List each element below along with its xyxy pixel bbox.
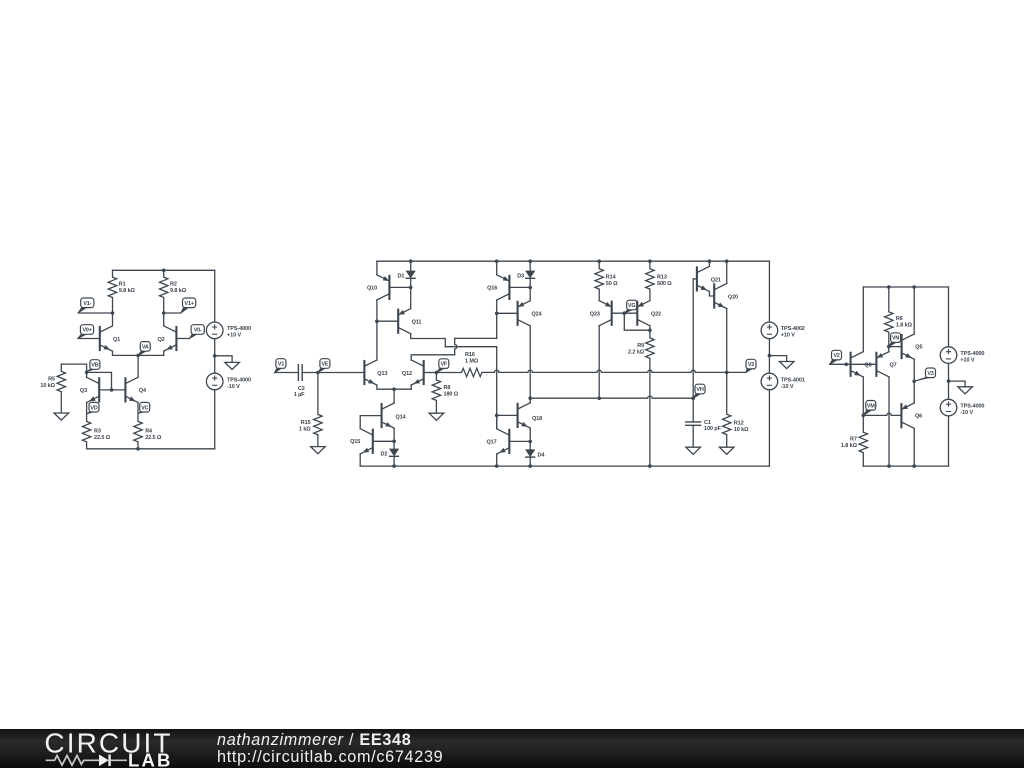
svg-text:R12: R12 [734,420,744,426]
svg-text:1 kΩ: 1 kΩ [299,426,311,432]
resistor R12 [723,414,731,434]
resistor R5 [57,371,65,391]
wire between right sources [948,363,950,399]
junction Q14 emitter / Q15 base / D2 [392,440,396,444]
wire TPS-4001 to bottom rail [768,390,770,466]
svg-text:D2: D2 [381,452,388,458]
junction top rail / R6 [887,285,891,289]
svg-text:V1+: V1+ [184,301,193,307]
junction node VG [623,311,627,315]
svg-text:VM: VM [867,403,875,409]
resistor R3 [82,421,90,441]
svg-text:2.2 kΩ: 2.2 kΩ [628,350,645,356]
wire rail to V+ source [214,270,216,322]
transistor Q6 [901,403,914,428]
junction node VE [316,371,320,375]
wire Q7 collector to bottom rail [888,377,890,466]
junction node VH [691,396,695,400]
wire Q23-Q22 base rail [612,312,638,314]
wire R14 to Q23 emitter [598,289,600,301]
svg-text:V0+: V0+ [82,328,91,334]
wire top rail middle block [377,260,770,262]
resistor R14 [595,269,603,289]
junction top rail / R2 [162,269,166,273]
resistor R1 [108,277,116,297]
svg-text:D4: D4 [538,452,546,458]
junction bottom rail / Q17 [495,464,499,468]
wire bottom rail left block [87,448,215,450]
svg-text:TPS-4000: TPS-4000 [227,378,251,384]
svg-text:+10 V: +10 V [227,333,241,339]
wire rail to right V+ source [948,287,950,347]
wire R15 to ground [317,435,319,447]
wire V- source to bottom rail [214,390,216,449]
wire Q10 base to D1 node [389,286,410,288]
junction bottom rail / D2 [392,464,396,468]
svg-text:V2: V2 [748,362,754,368]
junction VB node [85,371,89,375]
junction middle supply mid [768,354,772,358]
wire R2 bottom lead [163,298,165,314]
svg-text:TPS-4001: TPS-4001 [781,378,805,384]
wire emitter rail VA [113,354,164,356]
wire rail to Q16 emitter [496,261,498,275]
wire VE to R15 [317,373,319,415]
junction top rail / Q16 [495,259,499,263]
svg-text:9.8 kΩ: 9.8 kΩ [119,288,136,294]
transistor Q14 [382,403,395,428]
svg-text:1 MΩ: 1 MΩ [465,358,479,364]
wire Q11 collector to Q18 base node [445,346,496,348]
svg-text:TPS-4000: TPS-4000 [227,326,251,332]
flag V1 input [275,368,283,373]
wire Q12 collector path [411,355,455,360]
svg-text:Q3: Q3 [80,388,87,394]
svg-text:Q24: Q24 [532,312,543,318]
wire R13 top lead [649,261,651,269]
junction right supply mid [947,379,951,383]
wire Q22 collector lead [649,326,651,330]
junction node VM [862,414,866,418]
resistor R4 [134,421,142,441]
flag V1+ [181,307,189,313]
svg-text:Q1: Q1 [113,337,120,343]
transistor Q17 [497,429,510,454]
svg-text:Q12: Q12 [402,371,412,377]
junction Q18 base node [495,414,499,418]
junction R2 / Q2 collector [162,311,166,315]
wire to Q16 collector node [455,337,497,339]
wire Q24 base [497,312,518,314]
wire R14 top lead [598,261,600,269]
wire R9 to bottom rail [649,358,651,466]
wire Q12 collector riser (hop) [455,338,457,354]
resistor R6 [885,312,893,332]
wire Q18 collector [529,398,531,403]
transistor Q10 [377,275,390,300]
wire Q20 emitter / R12 lead [726,309,728,415]
wire Q3 collector-base tie [87,372,112,390]
wire Q21 base to VH node [692,279,694,398]
wire Q15 base to D2 node [373,440,394,442]
flag VG [624,309,633,313]
svg-text:R15: R15 [301,420,311,426]
svg-text:Q18: Q18 [532,416,542,422]
wire Q18 collector to VH node (hop) [530,396,693,398]
wire VH to C1 [692,398,694,422]
wire Q6 collector to bottom rail [913,428,915,466]
wire V1 to C2 [275,372,299,374]
junction VF wire / Q20 emitter [725,371,729,375]
wire R1 bottom lead [112,298,114,314]
wire Q14 base to Q15 collector [360,416,381,429]
junction Q24 base node [495,312,499,316]
svg-text:VB: VB [91,363,98,369]
svg-text:D3: D3 [517,274,524,280]
wire to left supply ground [215,356,232,363]
svg-text:VD: VD [90,405,97,411]
junction bottom rail / R9 [648,464,652,468]
svg-text:1 µF: 1 µF [294,392,305,398]
svg-text:1.8 kΩ: 1.8 kΩ [841,443,858,449]
wire Q17 base to D4 node [509,440,530,442]
wire top rail left block [113,269,215,271]
svg-text:Q21: Q21 [711,277,721,283]
svg-text:R6: R6 [896,316,903,322]
flag VD [87,411,96,414]
junction D1 / Q10 base [409,286,413,290]
wire to middle supply ground [769,356,786,362]
wire between left sources [214,339,216,374]
svg-text:R4: R4 [145,429,153,435]
transistor Q24 [518,301,531,326]
wire D4 to bottom rail [529,457,531,466]
svg-text:VA: VA [142,345,149,351]
svg-text:R1: R1 [119,282,126,288]
transistor Q20 [714,283,727,308]
wire Q16 base to D3 node [509,286,530,288]
wire between middle sources [768,339,770,374]
svg-text:Q22: Q22 [651,312,661,318]
svg-text:VH: VH [696,387,703,393]
transistor Q7 [876,352,889,377]
transistor Q13 [364,360,377,385]
svg-text:180 Ω: 180 Ω [444,392,459,398]
wire Q11 collector path [411,334,446,347]
flag V0- [190,334,198,339]
wire Q21 base lead [693,278,697,280]
svg-text:Q13: Q13 [377,371,387,377]
svg-text:R9: R9 [637,343,644,349]
wire Q4 emitter to R4 [137,403,139,422]
svg-text:R5: R5 [48,377,55,383]
resistor R15 [314,414,322,434]
wire Q12 base to VF [424,372,437,374]
svg-text:TPS-4002: TPS-4002 [781,326,805,332]
ground middle supplies [779,362,794,369]
transistor Q11 [398,309,411,334]
wire bottom rail middle block [360,465,769,467]
wire Q18 base [497,414,518,416]
svg-text:10 kΩ: 10 kΩ [734,427,749,433]
flag V3 [914,377,932,381]
wire R7 to bottom rail [862,453,864,467]
junction top rail / Q20 [725,259,729,263]
svg-text:22.5 Ω: 22.5 Ω [94,435,111,441]
source TPS-4002 +10V [761,322,778,339]
svg-text:-10 V: -10 V [960,410,973,416]
wire to right supply ground [949,381,966,387]
wire R13 to Q22 emitter [649,289,651,301]
wire Q21 collector lead [708,261,710,266]
junction node VA [136,354,140,358]
wire Q8 emitter to VM node [862,377,864,416]
wire node to V1+ [164,312,181,314]
svg-text:-10 V: -10 V [781,384,794,390]
svg-text:VF: VF [440,362,447,368]
svg-text:Q6: Q6 [915,414,922,420]
svg-text:TPS-4000: TPS-4000 [960,351,984,357]
wire R4 to bottom rail [137,442,139,449]
transistor Q8 [851,352,864,377]
svg-text:Q16: Q16 [487,286,497,292]
junction top rail / Q5 [912,285,916,289]
wire Q5 collector to rail [913,287,915,334]
wire Q14 emitter down [393,428,395,441]
diode D2 [389,449,399,457]
junction bottom rail / R4 [136,447,140,451]
junction D3 / Q16 base [528,286,532,290]
svg-text:R14: R14 [606,275,617,281]
junction Q22 collector / R9 [648,328,652,332]
diode D3 [525,271,535,279]
wire Q1 collector [112,313,114,326]
svg-text:LAB: LAB [128,750,173,768]
flag V2 input [830,359,839,364]
ground right supplies [958,387,973,394]
wire R1 top lead [112,270,114,277]
svg-text:R13: R13 [657,275,667,281]
wire Q24 collector down [529,326,531,398]
junction emitter rail / Q14 [392,387,396,391]
svg-text:Q8: Q8 [864,362,871,368]
svg-text:500 Ω: 500 Ω [657,281,672,287]
junction Q18 emitter / Q17 base / D4 [528,440,532,444]
resistor R8 [432,380,440,400]
wire down to Q17/Q18 base [496,347,498,429]
wire Q23 collector down [598,326,600,398]
logo resistor [46,756,99,766]
wire Q16 collector down [496,300,498,338]
wire VM to Q6 base (hop) [863,413,901,415]
wire to Q14 collector [393,389,395,403]
wire R6 top lead [888,287,890,312]
wire to D2 [393,441,395,448]
ground left supplies [225,362,240,369]
source TPS-4000 -10V left [206,373,223,390]
wire VF node to V2 (hops) [482,370,746,372]
svg-text:R16: R16 [465,352,475,358]
wire V2 to Q8/Q7 bases [830,363,877,365]
svg-text:Q5: Q5 [915,345,922,351]
wire Q22 base-collector tie [624,313,650,330]
wire R12 to ground [726,435,728,448]
wire Q17 emitter to bottom rail [496,454,498,466]
wire Q12 emitter lead [410,385,412,389]
wire R9 top lead [649,330,651,338]
ground R5 [54,413,69,420]
ground C1 [686,447,701,454]
wire Q2 emitter [163,351,165,355]
svg-text:VE: VE [321,362,328,368]
wire Q20 collector [726,261,728,283]
capacitor C2 [298,364,302,381]
source TPS-4001 -10V [761,373,778,390]
svg-text:100 pF: 100 pF [704,426,722,432]
svg-text:Q17: Q17 [487,440,497,446]
wire R3 to bottom rail [86,442,88,449]
svg-text:Q11: Q11 [412,319,422,325]
svg-text:+10 V: +10 V [781,333,795,339]
wire Q21 emitter to Q20 base [709,292,714,297]
wire rail to Q10 emitter [376,261,378,275]
transistor Q5 [902,334,915,359]
wire VM to R7 [862,415,864,432]
wire to D4 [529,441,531,449]
wire Q10 collector down to Q13 [376,300,378,360]
wire V1- to node [78,312,112,314]
wire Q2 base to V0- [176,338,189,340]
flag VN [889,342,898,347]
resistor R9 [646,338,654,358]
flag VE [318,368,327,373]
wire VF to R16 [436,372,461,374]
ground R12 [719,447,734,454]
transistor Q1 [100,326,113,351]
svg-text:V2: V2 [833,353,839,359]
CircuitLab logo [0,729,200,768]
flag VF [436,368,445,373]
junction bottom rail / Q6 [912,464,916,468]
resistor R2 [160,277,168,297]
wire R5 to Q3 collector [61,364,86,377]
wire D1 top lead [410,261,412,270]
wire Q15 emitter to bottom rail [359,454,361,466]
transistor Q15 [360,429,373,454]
resistor R7 [859,432,867,452]
transistor Q22 [637,301,650,326]
svg-text:Q7: Q7 [890,362,897,368]
transistor Q3 [87,377,100,402]
junction R1 / Q1 collector [111,311,115,315]
junction wire2 / Q23 collector [597,396,601,400]
wire C1 to ground [692,425,694,447]
source TPS-4000 +10V right [940,347,957,364]
svg-text:Q14: Q14 [396,414,407,420]
svg-text:1.8 kΩ: 1.8 kΩ [896,322,913,328]
svg-text:VC: VC [141,405,148,411]
svg-text:R3: R3 [94,429,101,435]
transistor Q2 [164,326,177,351]
wire Q2 collector [163,313,165,326]
transistor Q16 [497,275,510,300]
wire Q5 emitter to Q6 emitter [913,359,915,403]
svg-text:VN: VN [892,336,899,342]
junction node VN [887,345,891,349]
svg-text:V3: V3 [927,371,933,377]
svg-text:50 Ω: 50 Ω [606,281,618,287]
wire rail to TPS-4002 [768,261,770,322]
junction bottom rail / D4 [528,464,532,468]
wire VN to Q5 base [889,346,902,348]
junction top rail / R13 [648,259,652,263]
svg-text:22.5 Ω: 22.5 Ω [145,435,162,441]
transistor Q4 [125,377,138,402]
transistor Q12 [411,360,424,385]
flag VB [87,369,97,372]
wire D1 to Q11 emitter [410,278,412,308]
ground R15 [311,447,326,454]
svg-text:Q20: Q20 [728,295,738,301]
flag VA [138,350,147,355]
junction top rail / Q21 [708,259,712,263]
ground R8 [429,413,444,420]
diode D1 [406,271,416,279]
svg-text:-10 V: -10 V [227,384,240,390]
svg-text:Q2: Q2 [158,337,165,343]
wire D3 top lead [529,261,531,270]
transistor Q21 [697,266,710,291]
diode D4 [525,449,535,457]
junction node VF [435,371,439,375]
wire Q17 collector up [496,415,498,428]
wire VF to R8 [435,373,437,381]
wire Q3-Q4 base rail [99,389,125,391]
junction bottom rail / Q7 [887,464,891,468]
svg-text:V1: V1 [278,362,284,368]
flag V1- [78,307,87,313]
flag VC [138,411,147,413]
wire R8 to ground [435,400,437,413]
junction Q18 collector / wire2 [528,396,532,400]
svg-text:VG: VG [628,303,636,309]
svg-text:10 kΩ: 10 kΩ [40,383,55,389]
svg-text:Q10: Q10 [367,285,377,291]
wire bottom rail right block [863,465,948,467]
junction node V3 [912,379,916,383]
wire VA to Q4 collector [137,355,139,377]
flag V2 output [746,368,753,372]
svg-text:+10 V: +10 V [960,357,974,363]
source TPS-4000 +10V left [206,322,223,339]
wire Q11 base [377,320,398,322]
transistor Q18 [518,403,531,428]
wire VN to Q7 emitter [888,347,890,352]
transistor Q23 [599,301,612,326]
junction base rail tie [110,388,114,392]
wire D3 to Q24 emitter [529,278,531,300]
svg-text:Q23: Q23 [590,312,600,318]
junction top rail / D3 [528,259,532,263]
junction top rail / D1 [409,259,413,263]
source TPS-4000 -10V right [940,399,957,416]
wire rail down to Q8 collector [862,287,864,352]
wire Q3 emitter to R3 [86,403,88,422]
flag VM [863,409,872,415]
junction Q10 collector / Q11 base [375,319,379,323]
wire C2 to Q13 base [302,372,364,374]
logo diode [99,755,109,767]
